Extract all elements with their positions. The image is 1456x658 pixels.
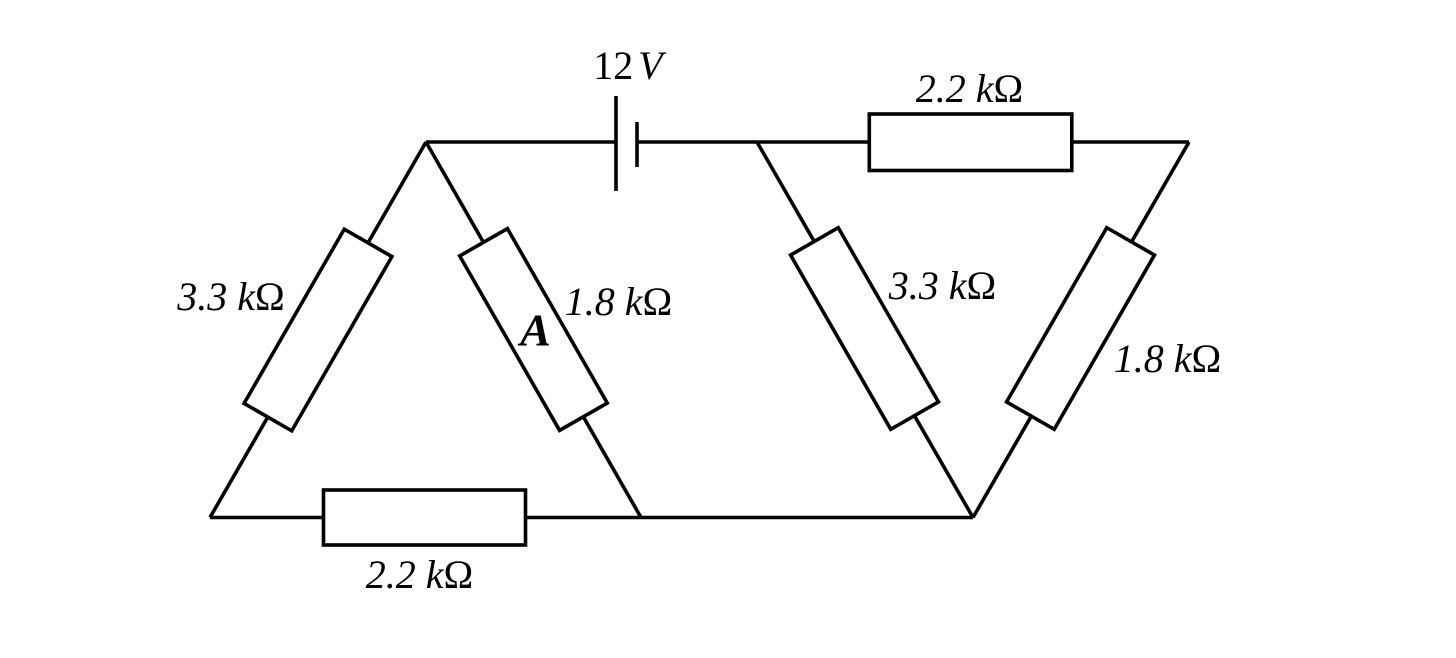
svg-text:2.2 kΩ: 2.2 kΩ: [366, 552, 474, 597]
wire right leg of right mesh: [973, 142, 1189, 518]
wire bottom: [210, 516, 973, 520]
battery V1 short plate (-): [635, 122, 639, 167]
svg-text:3.3 kΩ: 3.3 kΩ: [176, 274, 285, 319]
resistor 3.3k left body: [244, 229, 392, 431]
resistor 1.8k / ammeter A body: [460, 229, 608, 431]
svg-text:2.2 kΩ: 2.2 kΩ: [916, 66, 1024, 111]
wire left leg of left mesh: [210, 142, 426, 518]
resistor 2.2k bottom body: [324, 490, 526, 545]
wire top right segment (battery to top-right corner): [637, 140, 1189, 144]
resistor 1.8k right body: [1007, 228, 1155, 430]
svg-text:1.8 kΩ: 1.8 kΩ: [565, 279, 673, 324]
battery V1 long plate (+): [614, 96, 618, 191]
resistor 3.3k right body: [791, 228, 939, 430]
svg-text:12 V: 12 V: [593, 43, 667, 88]
resistor 2.2k top body: [869, 114, 1072, 171]
wire left leg of right mesh: [757, 142, 973, 518]
wire top left segment (apex to battery): [426, 140, 616, 144]
svg-text:3.3 kΩ: 3.3 kΩ: [888, 263, 997, 308]
svg-text:A: A: [517, 304, 551, 355]
wire right leg of left mesh (through ammeter A): [426, 142, 641, 518]
svg-text:1.8 kΩ: 1.8 kΩ: [1114, 336, 1222, 381]
